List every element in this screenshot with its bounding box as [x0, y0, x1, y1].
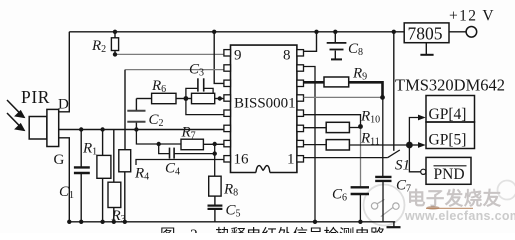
- resistor R7: [181, 139, 224, 150]
- wire PIR gate lead: [59, 138, 70, 222]
- svg-text:R8: R8: [223, 182, 238, 199]
- arrowhead GP5: [418, 142, 426, 148]
- svg-text:PND: PND: [434, 166, 465, 183]
- resistor R6: [136, 93, 191, 103]
- svg-text:GP[5]: GP[5]: [429, 132, 467, 149]
- wire pin 4 to R10 node: [304, 115, 361, 127]
- PIR infrared arrow 2: [7, 113, 24, 130]
- wire node to GP4 arrow: [409, 118, 419, 146]
- +12V terminal circle: [466, 27, 477, 38]
- resistor R2: [111, 32, 118, 55]
- inverter circle at PND: [421, 169, 426, 174]
- wire node to GP5 arrow: [409, 144, 419, 146]
- capacitor C6: [351, 187, 369, 222]
- wire pin 1 row: [304, 157, 388, 159]
- svg-text:C3: C3: [189, 62, 204, 79]
- IC pin stubs left: [224, 50, 231, 162]
- svg-text:热释电红外信号检测电路: 热释电红外信号检测电路: [215, 226, 386, 233]
- wire PIR drain lead: [59, 32, 70, 112]
- resistor R4: [119, 70, 131, 222]
- wire junction to pin 13: [186, 99, 224, 115]
- svg-text:TMS320DM642: TMS320DM642: [395, 76, 505, 95]
- arrowhead GP4: [418, 115, 426, 121]
- svg-text:C5: C5: [226, 203, 241, 220]
- svg-text:图: 图: [160, 227, 176, 233]
- svg-text:GP[4]: GP[4]: [429, 106, 467, 123]
- wire pin 5 row: [304, 96, 383, 98]
- svg-text:R4: R4: [134, 166, 149, 183]
- svg-text:9: 9: [234, 48, 242, 64]
- junction dots top rail: [113, 30, 396, 57]
- wire R2 to pin 9: [115, 53, 224, 55]
- wire top rail to pin 11: [214, 32, 224, 84]
- capacitor C2: [127, 99, 145, 130]
- wire node down to PND: [409, 145, 420, 172]
- capacitor C5: [208, 206, 223, 222]
- wire bottom ground rail: [69, 221, 395, 223]
- svg-text:8: 8: [283, 48, 291, 64]
- svg-text:D: D: [58, 97, 69, 113]
- resistor R1: [97, 130, 111, 222]
- IC pin stubs right: [297, 50, 304, 162]
- wire node down to C7: [382, 97, 384, 176]
- resistor R9: [304, 77, 383, 97]
- junction dots signal wire: [79, 127, 139, 131]
- svg-text:C7: C7: [396, 178, 411, 195]
- wire pin 8 to top rail: [303, 32, 316, 52]
- junction dots right side: [358, 95, 385, 129]
- svg-text:R6: R6: [151, 78, 166, 95]
- ground bottom right: [387, 222, 401, 227]
- wire PIR source signal to pin 14: [59, 129, 224, 131]
- wire R10 node down to C6: [360, 127, 362, 188]
- svg-text:S1: S1: [395, 158, 410, 174]
- svg-text:C8: C8: [348, 41, 363, 58]
- box GP[5]: [426, 122, 475, 149]
- wire pin 7 to ground rail: [304, 67, 316, 222]
- svg-text:1: 1: [287, 152, 295, 168]
- svg-text:R1: R1: [82, 141, 97, 158]
- svg-text:R7: R7: [181, 125, 196, 142]
- resistor R8: [209, 176, 221, 205]
- junction dots R7 C4 network: [157, 142, 217, 156]
- wire signal to R7 row: [136, 130, 181, 145]
- capacitor C8: [327, 32, 347, 59]
- svg-text:R11: R11: [360, 131, 380, 148]
- resistor R10: [304, 122, 361, 132]
- box GP[4]: [426, 96, 475, 123]
- capacitor C7: [375, 177, 391, 222]
- capacitor C3: [186, 78, 213, 98]
- svg-text:R10: R10: [360, 109, 380, 126]
- ground under 7805: [420, 43, 433, 55]
- resistor R11: [304, 140, 410, 150]
- capacitor C4: [159, 144, 215, 159]
- regulator 7805: [404, 23, 449, 43]
- svg-text:R9: R9: [352, 66, 367, 83]
- svg-text:BISS0001: BISS0001: [234, 96, 296, 112]
- svg-text:C1: C1: [59, 184, 74, 201]
- IC U1 BISS0001: [231, 45, 297, 172]
- svg-text:电子发烧友: 电子发烧友: [407, 188, 502, 209]
- resistor body parallel with C3: [192, 93, 225, 103]
- box PND: [426, 157, 471, 184]
- svg-text:PIR: PIR: [21, 87, 50, 107]
- svg-text:www.elecfans.com: www.elecfans.com: [404, 209, 515, 223]
- wire right supply vertical: [393, 32, 395, 151]
- svg-text:C2: C2: [149, 112, 164, 129]
- svg-text:C6: C6: [332, 187, 347, 204]
- svg-text:16: 16: [234, 152, 250, 168]
- capacitor C1: [74, 130, 90, 222]
- node S1 GP big dot: [406, 142, 413, 149]
- resistor R3: [108, 130, 121, 222]
- svg-text:7805: 7805: [408, 24, 443, 44]
- watermark logo swirl: [364, 181, 515, 226]
- wire 7805 to +12V terminal: [449, 31, 466, 33]
- PIR infrared arrow 1: [7, 100, 24, 117]
- svg-text:2: 2: [190, 227, 198, 233]
- wire pin 10 row: [125, 69, 224, 71]
- switch S1: [388, 150, 400, 158]
- junction dots ground rail: [67, 220, 362, 224]
- svg-text:C4: C4: [165, 161, 180, 178]
- wire pin15 node down to R8: [214, 144, 216, 176]
- wire top +V rail: [69, 31, 404, 33]
- ground bar under C8: [331, 58, 342, 60]
- junction dots R6 C3 network: [184, 96, 223, 101]
- svg-text:+12 V: +12 V: [449, 8, 495, 25]
- svg-text:R2: R2: [91, 38, 106, 55]
- svg-text:G: G: [54, 152, 65, 168]
- PIR sensor body: [29, 109, 59, 146]
- wire pin 16 stub: [136, 160, 224, 166]
- watermark brown underline: [427, 206, 440, 210]
